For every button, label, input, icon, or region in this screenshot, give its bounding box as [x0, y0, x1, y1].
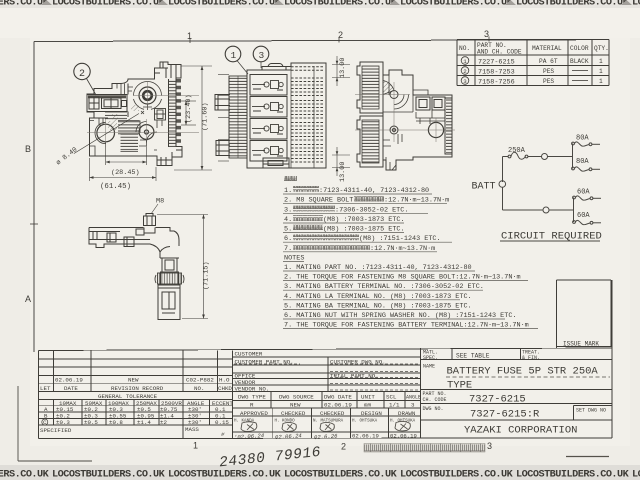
bottom tab: [263, 158, 289, 168]
lower cylinder: [158, 288, 180, 320]
bottom bus: [573, 198, 575, 223]
dashed fill lines customer block: [234, 364, 418, 390]
svg-text:LOCOSTBUILDERS.CO.UK: LOCOSTBUILDERS.CO.UK: [52, 470, 166, 480]
svg-text:SPECIFIED: SPECIFIED: [40, 427, 72, 434]
center comb/hatch block: [118, 121, 140, 134]
knurled nut: [161, 272, 179, 285]
svg-text:2: 2: [338, 30, 343, 40]
dim arrowheads: [90, 61, 339, 319]
svg-text:R: R: [250, 402, 254, 409]
svg-text:CUSTOMER: CUSTOMER: [235, 351, 263, 358]
dates row: [234, 432, 417, 441]
dim (23.40): [181, 101, 196, 125]
svg-text:TRIAL PART NO.: TRIAL PART NO.: [330, 372, 379, 379]
svg-text:02.06.19: 02.06.19: [55, 377, 83, 384]
svg-text:3: 3: [411, 402, 415, 409]
stray mark bottom right: [566, 456, 609, 458]
bottom watermark band: [0, 465, 640, 480]
svg-text:DATE: DATE: [64, 385, 78, 392]
svg-text:LOCOSTBUILDERS.CO.UK: LOCOSTBUILDERS.CO.UK: [400, 470, 514, 480]
svg-text:7158-7256: 7158-7256: [478, 79, 515, 87]
svg-text:1: 1: [463, 58, 467, 65]
dim (61.45): [90, 158, 157, 181]
svg-text:1: 1: [599, 68, 603, 75]
top watermark band: [0, 0, 640, 8]
svg-text:BATT: BATT: [472, 182, 496, 193]
svg-text:LOCOSTBUILDERS.CO.UK: LOCOSTBUILDERS.CO.UK: [168, 0, 282, 9]
svg-text:CHKD: CHKD: [218, 385, 232, 392]
name/matl block: [421, 348, 613, 420]
svg-text:3: 3: [484, 29, 489, 39]
svg-text:±30': ±30': [188, 419, 202, 426]
outline: [247, 63, 326, 168]
svg-text:1: 1: [231, 50, 237, 61]
inner rects right: [416, 97, 430, 110]
junction node: [542, 154, 548, 160]
svg-text:COLOR: COLOR: [570, 45, 589, 52]
svg-text:SEE TABLE: SEE TABLE: [456, 353, 490, 360]
handwriting 24380 79916: [218, 445, 321, 472]
fuse 250A: [508, 155, 511, 158]
dim 13.00 bottom: [332, 147, 350, 176]
svg-text:LOCOSTBUILDERS.CO.UK: LOCOSTBUILDERS.CO.UK: [168, 470, 282, 480]
svg-text:CHECKED: CHECKED: [281, 410, 306, 417]
svg-text:UNIT: UNIT: [361, 394, 375, 401]
svg-text:02.06.19: 02.06.19: [352, 433, 379, 440]
wire top branch: [503, 156, 509, 158]
balloon 3: [253, 46, 269, 62]
svg-text:7327-6215:R: 7327-6215:R: [470, 409, 540, 421]
svg-text:ANGLE: ANGLE: [406, 395, 421, 401]
svg-text:1: 1: [187, 31, 192, 41]
mass cell: [182, 425, 184, 439]
connector block: [87, 95, 127, 112]
top tabs detail: [155, 62, 177, 78]
svg-text:1: 1: [599, 78, 603, 85]
svg-text:13.00: 13.00: [339, 162, 347, 182]
hole left: [97, 124, 115, 142]
svg-text:1: 1: [193, 441, 198, 451]
svg-text:MASS: MASS: [185, 426, 199, 433]
svg-text:13.00: 13.00: [339, 58, 347, 78]
fan arc: [383, 70, 445, 170]
svg-text:±0.8: ±0.8: [109, 419, 123, 426]
svg-text:2: 2: [341, 442, 346, 452]
svg-text:(23.40): (23.40): [185, 94, 193, 123]
hatch scraps: [108, 121, 117, 130]
svg-text:250A: 250A: [508, 147, 526, 155]
fuse 60A lower: [573, 221, 576, 224]
balloon 2: [74, 63, 90, 79]
svg-text:±0.5: ±0.5: [84, 419, 98, 426]
wire bottom branch: [503, 209, 574, 211]
left revision block verticals: [52, 351, 54, 392]
svg-text:PES: PES: [543, 78, 554, 85]
svg-text:CH. CODE: CH. CODE: [423, 397, 447, 403]
svg-text:LOCOSTBUILDERS.CO.UK: LOCOSTBUILDERS.CO.UK: [52, 0, 166, 9]
svg-text:60A: 60A: [577, 189, 590, 197]
set dwg no box: [574, 405, 613, 407]
svg-text:NEW: NEW: [128, 377, 139, 384]
svg-text:REVISION RECORD: REVISION RECORD: [111, 385, 164, 392]
svg-text:±2: ±2: [160, 419, 167, 426]
connector strips: [357, 62, 383, 113]
svg-text:AND CH. CODE: AND CH. CODE: [477, 49, 522, 56]
svg-text:mm: mm: [364, 402, 371, 409]
svg-text:(61.45): (61.45): [100, 183, 131, 191]
small connector mid: [155, 109, 166, 121]
center view left extension ticks: [218, 75, 229, 162]
comb under connector: [105, 113, 127, 121]
svg-text:3: 3: [463, 78, 467, 85]
bottom right tabs detail: [157, 147, 182, 166]
svg-text:DWG TYPE: DWG TYPE: [238, 394, 266, 401]
svg-text:B: B: [25, 144, 31, 154]
issue mark box: [557, 280, 613, 348]
svg-text:±0.3: ±0.3: [56, 419, 70, 426]
svg-text:DWG NO.: DWG NO.: [423, 406, 444, 412]
svg-text:TYPE: TYPE: [447, 380, 472, 392]
svg-text:CHECKED: CHECKED: [320, 410, 345, 417]
centerlines: [87, 82, 199, 147]
svg-text:LOCOSTBUILDERS.CO.UK: LOCOSTBUILDERS.CO.UK: [516, 470, 630, 480]
svg-text:7158-7253: 7158-7253: [478, 69, 515, 77]
svg-text:LOCOSTBUILDERS.CO.UK: LOCOSTBUILDERS.CO.UK: [632, 470, 640, 480]
svg-text:NEW: NEW: [290, 402, 301, 409]
inner body edges: [90, 84, 129, 119]
svg-text:2: 2: [79, 69, 85, 80]
M8 bolt head on top of arm: [144, 216, 156, 226]
svg-text:C02-P882: C02-P882: [186, 377, 214, 384]
svg-text:VENDOR NO.: VENDOR NO.: [235, 386, 270, 393]
svg-text:LET: LET: [40, 385, 51, 392]
dim 13.00 top: [332, 56, 350, 86]
wire: [528, 156, 573, 158]
svg-text:0.15: 0.15: [215, 419, 229, 426]
dim (71.60): [174, 66, 212, 170]
svg-text:APPROVED: APPROVED: [240, 410, 268, 417]
svg-text:02.06.19: 02.06.19: [324, 402, 352, 409]
svg-text:80A: 80A: [576, 135, 589, 143]
svg-text:3: 3: [259, 50, 265, 61]
wire vertical from BATT: [502, 157, 504, 183]
svg-text:2: 2: [463, 68, 467, 75]
arm mid details: [124, 237, 134, 247]
svg-text:80A: 80A: [576, 158, 589, 166]
left protruding tab upper: [215, 95, 230, 111]
bottom ruler: [364, 444, 485, 453]
svg-text:& FIN.: & FIN.: [522, 355, 540, 361]
svg-text:YAZAKI CORPORATION: YAZAKI CORPORATION: [464, 425, 577, 437]
top bus: [572, 144, 574, 169]
bolt hole top: [139, 87, 156, 104]
left revision block horizontals: [39, 358, 233, 360]
svg-text:PA 6T: PA 6T: [539, 58, 558, 65]
top tab detail: [262, 67, 291, 71]
body outline: [87, 62, 182, 166]
svg-text:LOCOSTBUILDERS.CO.UK: LOCOSTBUILDERS.CO.UK: [400, 0, 514, 9]
svg-text:DESIGN: DESIGN: [361, 410, 382, 417]
svg-text:GENERAL TOLERANCE: GENERAL TOLERANCE: [98, 393, 158, 400]
svg-text:(71.15): (71.15): [203, 261, 211, 290]
fuse elements inside windows: [252, 81, 283, 157]
fuse 80A upper: [572, 142, 575, 145]
node BATT terminal: [499, 181, 506, 188]
svg-text:ISSUE MARK: ISSUE MARK: [563, 341, 599, 348]
row7 col dividers: [270, 392, 272, 408]
svg-text:60A: 60A: [577, 212, 590, 220]
svg-text:LOCOSTBUILDERS.CO.UK: LOCOSTBUILDERS.CO.UK: [284, 0, 398, 9]
drawing frame: [34, 40, 576, 352]
svg-text:A: A: [25, 294, 31, 304]
svg-text:02.06.19: 02.06.19: [390, 433, 417, 440]
svg-text:LOCOSTBUILDERS.CO.UK: LOCOSTBUILDERS.CO.UK: [0, 470, 50, 480]
svg-text:BATTERY FUSE 5P STR 250A: BATTERY FUSE 5P STR 250A: [447, 366, 599, 378]
horizontal arm body: [89, 228, 179, 259]
svg-text:3: 3: [487, 441, 492, 451]
fuse windows: [250, 75, 287, 96]
balloon 1: [225, 46, 241, 62]
right comb strip: [169, 79, 177, 147]
svg-text:H.O: H.O: [219, 377, 230, 384]
main body: [383, 70, 452, 170]
outer: [39, 348, 613, 351]
svg-text:#: #: [221, 431, 225, 438]
svg-text:DWG SOURCE: DWG SOURCE: [279, 394, 314, 401]
centerlines: [355, 82, 455, 142]
boss arcs and extra interior detail: [90, 82, 163, 157]
svg-text:SPEC.: SPEC.: [423, 355, 438, 361]
elbow filler: [144, 228, 170, 253]
svg-text:QTY.: QTY.: [594, 45, 609, 52]
dim (71.15): [157, 215, 208, 319]
svg-text:DWG DATE: DWG DATE: [324, 394, 352, 401]
stud lower right: [139, 125, 154, 140]
svg-text:7327-6215: 7327-6215: [469, 394, 526, 406]
vertical neck below elbow: [160, 258, 179, 272]
svg-text:NO.: NO.: [194, 385, 204, 392]
svg-text:NAME: NAME: [423, 364, 435, 370]
svg-text:1: 1: [599, 58, 603, 65]
svg-text:NO.: NO.: [459, 45, 470, 52]
svg-text:MATERIAL: MATERIAL: [532, 45, 562, 52]
svg-text:±1.4: ±1.4: [137, 419, 151, 426]
svg-text:M8: M8: [156, 198, 164, 206]
customer block: [233, 348, 421, 439]
svg-text:H. OHTSUKA: H. OHTSUKA: [352, 420, 378, 424]
dashed comb rows right: [291, 67, 324, 162]
svg-text:LOCOSTBUILDERS.CO.UK: LOCOSTBUILDERS.CO.UK: [632, 0, 640, 9]
zone ticks top border: [190, 37, 489, 44]
junction node bottom: [543, 207, 549, 213]
left protruding tab lower: [216, 141, 230, 156]
trim mark bottom-left: [18, 386, 92, 461]
stamps (handwritten): [241, 421, 410, 431]
svg-text:LOCOSTBUILDERS.CO.UK: LOCOSTBUILDERS.CO.UK: [284, 470, 398, 480]
svg-text:PES: PES: [543, 68, 554, 75]
tolerance verticals: [52, 399, 54, 425]
svg-text:(28.45): (28.45): [111, 169, 140, 177]
svg-text:BLACK: BLACK: [570, 58, 589, 65]
svg-text:LOCOSTBUILDERS.CO.UK: LOCOSTBUILDERS.CO.UK: [516, 0, 630, 9]
svg-text:1/1: 1/1: [389, 402, 400, 409]
fuse 80A lower: [572, 167, 575, 170]
svg-text:SET DWG NO: SET DWG NO: [576, 408, 606, 414]
circles: [390, 91, 444, 138]
fuse 60A upper: [573, 196, 576, 199]
svg-text:SCL: SCL: [386, 394, 397, 401]
left border zone tick: [30, 223, 38, 225]
dim (28.45): [106, 140, 147, 165]
arm left end detail: [89, 232, 150, 240]
sign col dividers: [272, 408, 274, 439]
left comb strip: [229, 76, 247, 158]
svg-text:7227-6215: 7227-6215: [478, 59, 515, 67]
svg-text:(71.60): (71.60): [202, 102, 210, 131]
svg-text:DRAWN: DRAWN: [398, 410, 416, 417]
